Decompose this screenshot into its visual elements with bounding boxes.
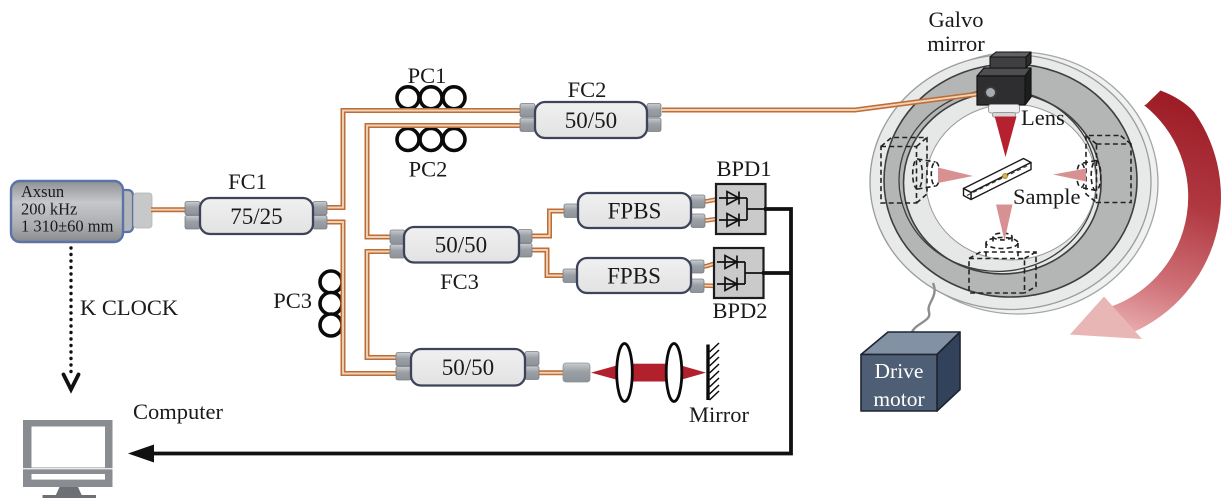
balanced photodetector BPD2 <box>714 248 764 298</box>
rotating gantry back plate <box>878 52 1158 314</box>
coupler FC1 connectors <box>185 202 327 230</box>
reference beam collimated <box>622 364 676 382</box>
svg-text:FC2: FC2 <box>568 77 607 102</box>
bottom probe beam <box>996 205 1013 241</box>
rotation arrowhead <box>1070 297 1142 340</box>
svg-text:motor: motor <box>873 387 924 411</box>
fiber Axsun to FC1 <box>151 207 186 212</box>
fiber FC1 bottom output to reference coupler via PC3 <box>326 222 398 374</box>
svg-text:Sample: Sample <box>1013 184 1081 209</box>
sample centerline <box>967 166 1028 196</box>
fiber FC3 output1 to FPBS1 <box>531 211 566 236</box>
svg-text:mirror: mirror <box>927 31 985 56</box>
fibers FPBS1 to BPD1 <box>704 200 718 221</box>
svg-text:1 310±60 mm: 1 310±60 mm <box>21 217 114 236</box>
coupler FC1 75/25 <box>200 198 313 234</box>
mirror line with hatching <box>706 345 709 401</box>
signal arrowhead at computer <box>128 445 154 463</box>
coupler FC2 connectors <box>520 104 661 132</box>
rotating gantry front plate <box>870 55 1151 310</box>
reference coupler connectors <box>396 352 539 381</box>
svg-text:BPD1: BPD1 <box>716 156 771 181</box>
galvo lens holder <box>989 105 1020 114</box>
galvo main box <box>977 68 1031 105</box>
fiber FC3 output2 to FPBS2 <box>531 250 566 276</box>
K CLOCK arrowhead <box>64 375 79 390</box>
monitor stand <box>55 487 84 498</box>
lens L1 <box>617 344 633 402</box>
rotation arrow (red curved) <box>1070 91 1221 339</box>
sample focus dot <box>1002 173 1007 178</box>
sample bar <box>964 159 1032 200</box>
svg-text:FC1: FC1 <box>228 169 267 194</box>
svg-text:BPD2: BPD2 <box>712 298 767 323</box>
right ghost lens barrel <box>1081 161 1096 191</box>
svg-text:Axsun: Axsun <box>21 182 64 201</box>
laser source Axsun box <box>112 190 133 232</box>
gantry ring inner edge offset copy <box>899 90 1097 272</box>
balanced photodetector BPD1 <box>716 184 766 234</box>
gantry ring inner region <box>904 92 1102 274</box>
svg-text:K CLOCK: K CLOCK <box>80 295 179 320</box>
signal wire BPD2 join <box>745 272 763 274</box>
PC2 fiber loops <box>397 129 465 151</box>
svg-text:FC3: FC3 <box>440 269 479 294</box>
svg-text:50/50: 50/50 <box>442 355 494 380</box>
PC3 fiber loops <box>320 271 342 336</box>
coupler FC3 50/50 <box>404 227 519 263</box>
fiber FC2 input2 to FC3 input1 via PC2 <box>367 126 521 238</box>
svg-text:75/25: 75/25 <box>230 204 282 229</box>
galvo top box <box>990 52 1031 68</box>
svg-text:50/50: 50/50 <box>565 108 617 133</box>
svg-text:FPBS: FPBS <box>607 264 661 289</box>
right ghost scanner dashed box <box>1077 136 1131 203</box>
svg-text:Galvo: Galvo <box>929 7 984 32</box>
signal wire BPD1 to computer <box>747 208 765 210</box>
computer monitor <box>23 420 113 487</box>
left ghost lens barrel <box>918 159 936 189</box>
fiber reference coupler to collimator <box>537 370 565 375</box>
polarization beam splitter FPBS1 <box>578 193 691 228</box>
right probe beam <box>1053 169 1086 182</box>
FPBS1 connectors <box>564 195 705 228</box>
svg-text:FPBS: FPBS <box>608 199 662 224</box>
motor cable <box>904 283 935 341</box>
fiber FC3 input2 to reference coupler <box>367 252 398 358</box>
reference beam converging <box>675 364 706 382</box>
svg-text:PC2: PC2 <box>409 157 448 182</box>
svg-text:Drive: Drive <box>875 359 924 383</box>
coupler FC3 connectors <box>390 230 532 259</box>
bottom ghost lens barrel <box>986 243 1018 260</box>
collimator <box>563 363 590 382</box>
fiber to galvo <box>662 93 988 110</box>
K CLOCK dotted arrow <box>69 246 72 373</box>
galvo scan beam <box>995 117 1017 158</box>
svg-text:Computer: Computer <box>133 399 223 424</box>
svg-text:Mirror: Mirror <box>689 402 749 427</box>
fiber FC1 top output to FC2 input1 via PC1 <box>326 111 521 208</box>
reference coupler 50/50 <box>411 349 525 386</box>
left probe beam <box>938 168 973 184</box>
left ghost scanner dashed box <box>881 138 940 204</box>
bottom ghost scanner dashed box <box>969 233 1036 293</box>
lens L2 <box>666 344 682 402</box>
svg-text:PC1: PC1 <box>408 63 447 88</box>
svg-text:50/50: 50/50 <box>435 233 487 258</box>
coupler FC2 50/50 <box>535 102 647 138</box>
drive motor box <box>861 332 960 411</box>
fibers FPBS2 to BPD2 <box>703 264 717 287</box>
polarization beam splitter FPBS2 <box>577 258 691 293</box>
FPBS2 connectors <box>563 260 704 293</box>
gantry center white area <box>926 104 1096 260</box>
svg-text:PC3: PC3 <box>273 288 312 313</box>
reference beam expanding <box>591 364 623 382</box>
galvo fiber connector <box>985 87 996 98</box>
laser output port <box>134 193 153 228</box>
svg-text:Lens: Lens <box>1021 105 1065 130</box>
PC1 fiber loops <box>397 87 465 109</box>
gantry dark ring band <box>884 64 1137 297</box>
